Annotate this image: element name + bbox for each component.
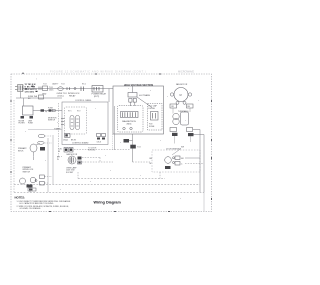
svg-text:SWITCH: SWITCH (48, 120, 56, 122)
svg-text:CONTROL PANEL: CONTROL PANEL (75, 99, 93, 102)
svg-text:(RY2): (RY2) (94, 96, 100, 98)
svg-text:RY1: RY1 (68, 111, 71, 113)
svg-text:FUSE: FUSE (28, 123, 34, 125)
svg-text:GND: GND (42, 93, 47, 95)
svg-text:CN-A: CN-A (63, 139, 68, 142)
svg-text:150C: 150C (49, 90, 54, 92)
svg-text:TCO: TCO (43, 84, 47, 86)
svg-text:HIGH VOLTAGE SECTION: HIGH VOLTAGE SECTION (124, 84, 153, 87)
svg-text:Wiring Diagram: Wiring Diagram (94, 200, 122, 204)
svg-text:(MG): (MG) (127, 123, 132, 125)
svg-text:120V 60HZ: 120V 60HZ (25, 92, 35, 94)
svg-text:W: W (57, 159, 59, 161)
svg-text:SW: SW (181, 147, 184, 149)
svg-text:M: M (180, 94, 182, 97)
svg-text:CAVITY: CAVITY (52, 83, 59, 86)
svg-text:RELAY: RELAY (69, 94, 76, 97)
svg-text:DIODE: DIODE (149, 108, 156, 110)
svg-text:H.V. CAPACITOR BEFORE TOUCHING: H.V. CAPACITOR BEFORE TOUCHING. (20, 202, 55, 205)
svg-text:NOTES:: NOTES: (15, 196, 26, 200)
svg-text:FAN MOTOR: FAN MOTOR (176, 83, 188, 86)
svg-text:BK W: BK W (71, 140, 76, 142)
svg-text:FUSE: FUSE (48, 108, 54, 110)
svg-text:H.V.TRANS: H.V.TRANS (139, 94, 151, 97)
svg-text:SOCKET: SOCKET (66, 172, 74, 174)
svg-text:TCO: TCO (137, 147, 142, 149)
svg-text:SWITCH: SWITCH (23, 171, 31, 173)
svg-text:FUSE: FUSE (149, 126, 155, 128)
svg-text:RY2: RY2 (77, 111, 80, 113)
svg-text:GY-GRAY, OR-ORANGE.: GY-GRAY, OR-ORANGE. (20, 207, 42, 210)
svg-text:FILTER: FILTER (19, 123, 26, 125)
svg-text:FAN MOTOR: FAN MOTOR (67, 153, 78, 156)
svg-text:INTLK: INTLK (18, 150, 24, 152)
svg-text:CONTROL BOARD: CONTROL BOARD (72, 142, 89, 145)
svg-text:SW (NC): SW (NC) (88, 150, 96, 152)
svg-text:W: W (150, 163, 152, 165)
svg-text:(150C): (150C) (58, 95, 64, 97)
svg-text:MICROWAVE: MICROWAVE (178, 70, 194, 74)
svg-text:RY-1: RY-1 (82, 84, 86, 86)
svg-text:TCO: TCO (61, 84, 65, 86)
svg-text:FIGURE 12 SCHEMATIC AND WIRIN: FIGURE 12 SCHEMATIC AND WIRING DIAGRAM (… (50, 70, 146, 74)
